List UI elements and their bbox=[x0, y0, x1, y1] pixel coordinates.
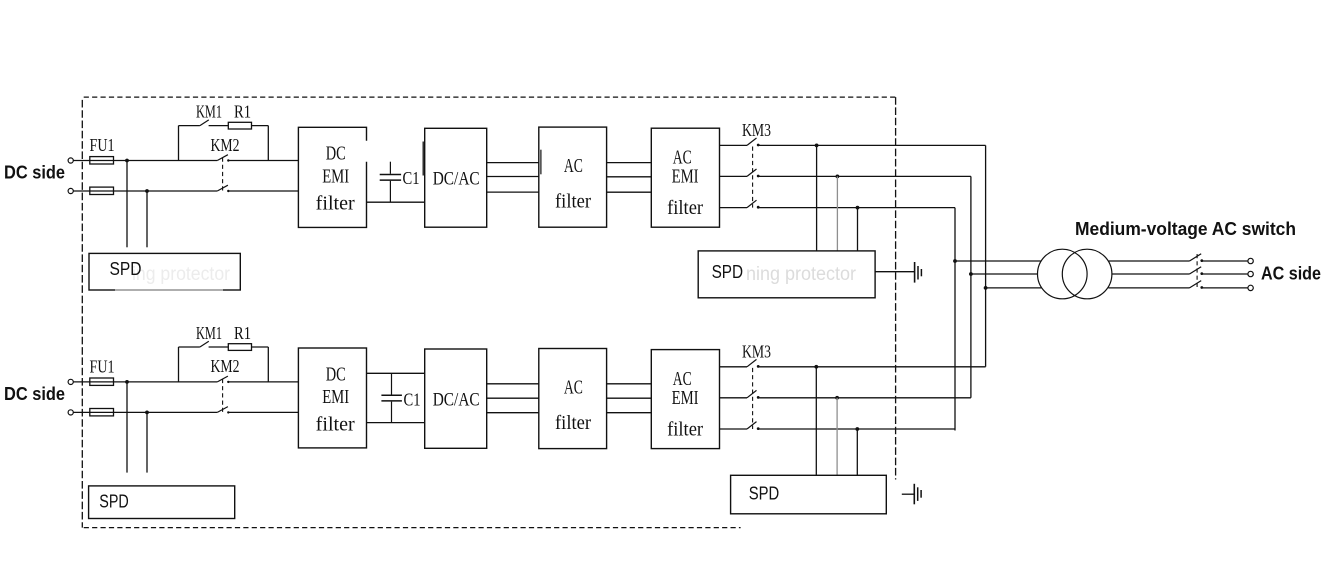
node SPD tap A row2 bbox=[814, 365, 818, 369]
label R1 row1 bbox=[234, 102, 251, 122]
fuse FU1a row1 bbox=[90, 157, 114, 164]
node junction DC+ row2 bbox=[125, 380, 129, 384]
label AC EMI filter row2 bbox=[667, 368, 703, 440]
wire KM3 pole3 to bus row2 bbox=[759, 428, 955, 430]
switch AC pole1 blade bbox=[1190, 254, 1202, 261]
resistor R1 row2 bbox=[228, 344, 251, 351]
node SPD tap C row2 bbox=[855, 427, 859, 431]
svg-text:AC side: AC side bbox=[1261, 264, 1321, 284]
switch AC pole1 contact bbox=[1200, 259, 1203, 262]
svg-text:ning protector: ning protector bbox=[746, 264, 857, 285]
svg-text:DC side: DC side bbox=[4, 162, 65, 182]
label Medium-voltage AC switch bbox=[1075, 219, 1296, 239]
svg-text:AC: AC bbox=[564, 376, 583, 398]
enclosure dashed border top bbox=[84, 96, 896, 98]
wire phase A ACfilter-ACEMI row1 bbox=[607, 162, 652, 164]
terminal DC- row1 bbox=[68, 188, 73, 193]
label C1 row2 bbox=[404, 389, 421, 409]
label SPD right row1 bbox=[712, 262, 744, 282]
wire KM2 to filter bottom row2 bbox=[228, 411, 298, 413]
label AC filter row1 bbox=[555, 155, 591, 213]
switch AC pole3 blade bbox=[1190, 281, 1202, 288]
wire ACEMI to KM3 pole2 row1 bbox=[720, 175, 748, 177]
node SPD tap A row1 bbox=[815, 144, 819, 148]
wire bus C to transformer bbox=[955, 260, 1041, 262]
switch KM3 pole3 contact row2 bbox=[757, 427, 760, 430]
capacitor C1 row1 bbox=[380, 162, 401, 203]
node junction DC+ row1 bbox=[125, 159, 129, 163]
label KM3 row2 bbox=[742, 341, 771, 361]
label DC side row2 bbox=[4, 384, 65, 404]
svg-text:DC: DC bbox=[326, 364, 346, 386]
wire phase B DC/AC-ACfilter row2 bbox=[487, 397, 539, 399]
block AC EMI filter row2 bbox=[651, 350, 719, 449]
switch KM2 pole2 contact row2 bbox=[227, 411, 229, 413]
wire SPD drop DC- row1 bbox=[146, 191, 148, 247]
terminal DC+ row1 bbox=[68, 158, 73, 163]
svg-text:FU1: FU1 bbox=[90, 135, 115, 155]
wire KM1 loop left vertical row2 bbox=[178, 347, 180, 382]
wire ACEMI to KM3 pole3 row2 bbox=[720, 428, 748, 430]
label DC/AC row2 bbox=[433, 390, 480, 411]
wire phase B DC/AC-ACfilter row1 bbox=[487, 176, 539, 178]
wire ACEMI to KM3 pole1 row2 bbox=[720, 366, 748, 368]
wire SPD drop A row1 bbox=[816, 145, 818, 251]
wire transformer to switch 1 bbox=[1109, 260, 1190, 262]
svg-text:SPD: SPD bbox=[749, 483, 780, 503]
label AC EMI filter row1 bbox=[667, 146, 703, 219]
svg-text:filter: filter bbox=[316, 414, 355, 436]
switch KM2 pole1 contact row1 bbox=[227, 159, 229, 161]
terminal DC+ row2 bbox=[68, 379, 73, 384]
wire KM1 to R1 row2 bbox=[209, 346, 229, 348]
switch KM3 pole3 blade row2 bbox=[747, 422, 757, 429]
svg-text:SPD: SPD bbox=[712, 262, 744, 282]
svg-text:filter: filter bbox=[667, 418, 703, 440]
wire R1 to loop right row2 bbox=[252, 346, 269, 348]
label SPD left row2 bbox=[99, 492, 129, 512]
switch KM3 pole2 contact row1 bbox=[757, 175, 760, 178]
svg-text:KM1: KM1 bbox=[196, 102, 222, 122]
wire switch to terminal 2 bbox=[1203, 273, 1248, 275]
svg-text:C1: C1 bbox=[403, 168, 420, 188]
switch KM3 pole2 blade row2 bbox=[747, 390, 757, 397]
fuse FU1b row2 bbox=[90, 409, 114, 416]
label DC/AC row1 bbox=[433, 168, 480, 189]
node bus C to transformer bbox=[953, 259, 957, 263]
switch KM2 dashed link row2 bbox=[222, 379, 224, 414]
switch KM3 pole2 contact row2 bbox=[757, 396, 760, 399]
ghost text lightning protector left row1 bbox=[132, 264, 231, 285]
wire SPD drop A row2 bbox=[815, 367, 817, 476]
switch KM2 pole2 contact row1 bbox=[227, 190, 229, 192]
svg-text:Medium-voltage AC switch: Medium-voltage AC switch bbox=[1075, 219, 1296, 239]
wire DC-EMI-filter to DC/AC bottom row2 bbox=[367, 422, 425, 424]
block AC filter row2 bbox=[539, 349, 607, 449]
artifact double edge DC/AC row1 bbox=[422, 142, 424, 176]
label R1 row2 bbox=[234, 323, 251, 343]
block SPD right row1 bbox=[698, 251, 875, 298]
svg-text:DC: DC bbox=[326, 142, 346, 164]
svg-text:EMI: EMI bbox=[322, 165, 349, 187]
svg-text:R1: R1 bbox=[234, 102, 251, 122]
node SPD tap B row1 bbox=[836, 175, 840, 179]
enclosure dashed border right bbox=[895, 97, 897, 479]
resistor R1 row1 bbox=[228, 122, 251, 129]
wire bus phase B vertical bbox=[970, 176, 972, 397]
switch KM3 pole3 blade row1 bbox=[747, 200, 757, 207]
node SPD tap C row1 bbox=[856, 206, 860, 210]
switch KM2 pole2 blade row1 bbox=[217, 185, 228, 191]
wire transformer to switch 3 bbox=[1108, 287, 1189, 289]
terminal DC- row2 bbox=[68, 410, 73, 415]
wire transformer to switch 2 bbox=[1112, 273, 1190, 275]
block AC filter row1 bbox=[539, 127, 607, 227]
wire phase A DC/AC-ACfilter row2 bbox=[487, 383, 539, 385]
wire bus B to transformer bbox=[971, 273, 1038, 275]
wire SPD drop DC- row2 bbox=[146, 412, 148, 472]
wire KM1 loop top left row1 bbox=[179, 125, 200, 127]
wire KM1 loop left vertical row1 bbox=[178, 126, 180, 161]
wire KM3 pole2 to bus row1 bbox=[759, 175, 971, 177]
wire DC- row1 bbox=[73, 190, 217, 192]
svg-text:ing protector: ing protector bbox=[132, 264, 231, 285]
block SPD left row1 bbox=[89, 253, 240, 290]
terminal AC phase 2 bbox=[1248, 271, 1253, 276]
block SPD right row2 bbox=[731, 475, 887, 514]
svg-text:KM2: KM2 bbox=[211, 135, 240, 155]
wire SPD drop B row1 (grey) bbox=[836, 176, 838, 251]
switch KM2 pole2 blade row2 bbox=[217, 407, 228, 413]
wire phase A ACfilter-ACEMI row2 bbox=[607, 383, 652, 385]
wire phase A DC/AC-ACfilter row1 bbox=[487, 162, 539, 164]
label SPD left row1 bbox=[110, 259, 142, 279]
wire SPD drop C row1 bbox=[857, 208, 859, 251]
switch KM3 dashed link row2 bbox=[752, 368, 754, 429]
wire SPD drop B row2 (grey) bbox=[836, 398, 838, 476]
wire bus A to transformer bbox=[986, 287, 1042, 289]
svg-text:KM3: KM3 bbox=[742, 120, 771, 140]
label DC EMI filter row1 bbox=[316, 142, 355, 214]
svg-text:EMI: EMI bbox=[672, 387, 699, 409]
wire phase C DC/AC-ACfilter row2 bbox=[487, 412, 539, 414]
node junction DC- row2 bbox=[145, 411, 149, 415]
label KM1 row1 bbox=[196, 102, 222, 122]
svg-text:DC/AC: DC/AC bbox=[433, 168, 480, 189]
wire KM1 to R1 row1 bbox=[209, 125, 229, 127]
switch KM2 dashed link row1 bbox=[222, 158, 224, 193]
wire phase B ACfilter-ACEMI row1 bbox=[607, 176, 652, 178]
label FU1 row1 bbox=[90, 135, 115, 155]
label KM1 row2 bbox=[196, 323, 222, 343]
switch KM3 dashed link row1 bbox=[752, 147, 754, 208]
block DC/AC row2 bbox=[425, 349, 487, 448]
wire KM3 pole2 to bus row2 bbox=[759, 397, 971, 399]
switch KM3 pole1 blade row2 bbox=[747, 359, 757, 366]
label FU1 row2 bbox=[90, 356, 115, 376]
wire SPD drop DC+ row2 bbox=[126, 382, 128, 473]
switch KM1 blade row1 bbox=[200, 120, 209, 126]
wire stub to ground row2 bbox=[902, 493, 914, 495]
label DC EMI filter row2 bbox=[316, 364, 355, 436]
switch KM3 pole2 blade row1 bbox=[747, 169, 757, 176]
wire DC+ row1 bbox=[73, 160, 217, 162]
svg-text:SPD: SPD bbox=[99, 492, 129, 512]
svg-text:C1: C1 bbox=[404, 389, 421, 409]
switch KM3 pole1 blade row1 bbox=[747, 138, 757, 145]
wire R1 to loop right row1 bbox=[252, 125, 269, 127]
svg-text:FU1: FU1 bbox=[90, 356, 115, 376]
svg-text:filter: filter bbox=[667, 197, 703, 219]
svg-text:R1: R1 bbox=[234, 323, 251, 343]
wire KM1 loop right vertical row1 bbox=[267, 126, 269, 161]
wire phase C ACfilter-ACEMI row2 bbox=[607, 412, 652, 414]
wire ACEMI to KM3 pole1 row1 bbox=[720, 144, 748, 146]
svg-text:DC/AC: DC/AC bbox=[433, 390, 480, 411]
wire DC-EMI-filter to DC/AC top row2 bbox=[367, 372, 425, 374]
enclosure dashed border bottom bbox=[84, 527, 741, 529]
wire bus phase C vertical bbox=[954, 208, 956, 431]
fuse FU1b row1 bbox=[90, 187, 114, 194]
switch AC pole2 contact bbox=[1200, 272, 1203, 275]
wire SPD drop DC+ row1 bbox=[126, 161, 128, 248]
block DC/AC row1 bbox=[425, 128, 487, 227]
label DC side row1 bbox=[4, 162, 65, 182]
svg-text:AC: AC bbox=[564, 155, 583, 177]
wire KM2 to filter bottom row1 bbox=[228, 190, 298, 192]
wire DC-EMI-filter to DC/AC row1 bbox=[367, 201, 425, 203]
wire KM1 loop top left row2 bbox=[179, 346, 200, 348]
switch KM1 blade row2 bbox=[200, 341, 209, 347]
terminal AC phase 3 bbox=[1248, 285, 1253, 290]
label KM2 row1 bbox=[211, 135, 240, 155]
wire bus phase A vertical bbox=[985, 145, 987, 366]
node junction DC- row1 bbox=[145, 189, 149, 193]
enclosure dashed border left bbox=[81, 100, 83, 528]
wire ACEMI to KM3 pole3 row1 bbox=[720, 207, 748, 209]
ground symbol row2 bbox=[914, 484, 921, 505]
wire KM2 to filter top row1 bbox=[228, 160, 298, 162]
label SPD right row2 bbox=[749, 483, 780, 503]
wire KM1 loop right vertical row2 bbox=[267, 347, 269, 382]
node SPD tap B row2 bbox=[835, 396, 839, 400]
label KM2 row2 bbox=[211, 356, 240, 376]
switch AC dashed link bbox=[1196, 254, 1198, 289]
wire ACEMI to KM3 pole2 row2 bbox=[720, 397, 748, 399]
wire KM2 to filter top row2 bbox=[228, 381, 298, 383]
wire KM3 pole1 to bus row1 bbox=[759, 144, 986, 146]
wire phase C ACfilter-ACEMI row1 bbox=[607, 191, 652, 193]
artifact washed border SPD left row1 bbox=[115, 289, 223, 291]
transformer T1 primary winding bbox=[1038, 249, 1088, 299]
wire phase C DC/AC-ACfilter row1 bbox=[487, 191, 539, 193]
wire SPD drop C row2 bbox=[856, 429, 858, 475]
wire KM3 pole3 to bus row1 bbox=[759, 207, 955, 209]
label AC filter row2 bbox=[555, 376, 591, 434]
switch AC pole2 blade bbox=[1190, 267, 1202, 274]
wire KM3 pole1 to bus row2 bbox=[759, 366, 986, 368]
wire switch to terminal 3 bbox=[1203, 287, 1248, 289]
wire SPD to ground row1 bbox=[875, 271, 914, 273]
switch KM2 pole1 blade row1 bbox=[217, 155, 228, 161]
svg-text:KM2: KM2 bbox=[211, 356, 240, 376]
wire phase B ACfilter-ACEMI row2 bbox=[607, 397, 652, 399]
switch KM3 pole3 contact row1 bbox=[757, 206, 760, 209]
block DC EMI filter row1 bbox=[298, 127, 366, 227]
ground symbol row1 bbox=[915, 262, 922, 283]
label C1 row1 bbox=[403, 168, 420, 188]
svg-text:EMI: EMI bbox=[672, 166, 699, 188]
svg-text:filter: filter bbox=[555, 412, 591, 434]
svg-text:filter: filter bbox=[316, 193, 355, 215]
switch KM2 pole1 contact row2 bbox=[227, 381, 229, 383]
artifact tick AC filter row1 bbox=[540, 150, 542, 175]
terminal AC phase 1 bbox=[1248, 258, 1253, 263]
capacitor C1 row2 bbox=[381, 373, 402, 422]
node bus A to transformer bbox=[984, 286, 988, 290]
svg-text:EMI: EMI bbox=[322, 386, 349, 408]
block SPD left row2 bbox=[89, 486, 235, 519]
wire DC- row2 bbox=[73, 411, 217, 413]
label KM3 row1 bbox=[742, 120, 771, 140]
switch KM3 pole1 contact row1 bbox=[757, 144, 760, 147]
block AC EMI filter row1 bbox=[651, 128, 719, 227]
svg-text:KM3: KM3 bbox=[742, 341, 771, 361]
switch KM2 pole1 blade row2 bbox=[217, 376, 228, 382]
fuse FU1a row2 bbox=[90, 378, 114, 385]
svg-text:KM1: KM1 bbox=[196, 323, 222, 343]
block DC EMI filter row2 bbox=[298, 348, 366, 448]
wire DC+ row2 bbox=[73, 381, 217, 383]
label AC side bbox=[1261, 264, 1321, 284]
transformer T1 secondary winding bbox=[1062, 249, 1112, 299]
svg-text:SPD: SPD bbox=[110, 259, 142, 279]
svg-text:DC side: DC side bbox=[4, 384, 65, 404]
switch KM3 pole1 contact row2 bbox=[757, 365, 760, 368]
svg-text:filter: filter bbox=[555, 191, 591, 213]
node bus B to transformer bbox=[969, 272, 973, 276]
ghost text lightning protector row1 bbox=[746, 264, 857, 285]
wire switch to terminal 1 bbox=[1203, 260, 1248, 262]
switch AC pole3 contact bbox=[1200, 286, 1203, 289]
